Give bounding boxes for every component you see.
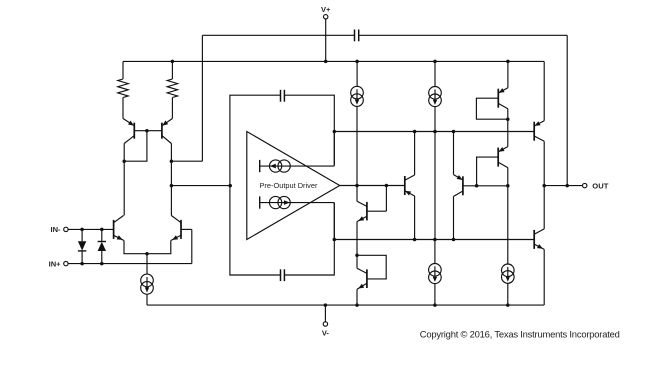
wire I2 up to box tap xyxy=(333,132,335,167)
node IN+ / D1 xyxy=(80,262,84,266)
current source I2 (in triangle, arrow left) xyxy=(260,160,335,172)
current source I4 xyxy=(351,61,364,106)
wire I7 to rail-C xyxy=(507,283,509,305)
svg-text:OUT: OUT xyxy=(592,182,608,191)
terminal IN+ xyxy=(64,261,68,265)
node Q6 emitter on rail-C xyxy=(355,303,359,307)
label V- xyxy=(322,329,330,338)
svg-text:IN+: IN+ xyxy=(49,259,62,268)
resistor R2 xyxy=(167,79,177,98)
wire rail-C (V- rail, y=305.1) xyxy=(147,304,544,306)
label IN- xyxy=(51,225,62,234)
node rail-B/CS1 xyxy=(355,60,359,64)
transistor Q12 (output NPN) xyxy=(534,186,544,306)
capacitor C3 (box bottom) xyxy=(281,269,285,281)
node OUT join xyxy=(542,184,546,188)
node mirror base tie xyxy=(145,129,149,133)
wire net-TOP (y=131.5) xyxy=(334,131,534,133)
diode D2 (cathode up) xyxy=(98,229,106,263)
wire I4 to apex node xyxy=(356,106,358,185)
node rail-B/R2 junction xyxy=(171,60,175,64)
current source I3 (in triangle, arrow right) xyxy=(260,196,335,208)
node box input xyxy=(228,184,232,188)
node Q7 collector xyxy=(413,130,417,134)
box pre-output driver frame xyxy=(230,95,334,275)
node Q8/Q9 junction xyxy=(506,117,510,121)
transistor Q1 (PNP mirror left) xyxy=(123,119,147,162)
svg-text:Pre-Output Driver: Pre-Output Driver xyxy=(260,181,318,190)
terminal IN- xyxy=(64,227,68,231)
node rail-B/V+ junction xyxy=(324,60,328,64)
node CS2 top xyxy=(433,130,437,134)
node V- stub xyxy=(324,303,328,307)
transistor Q3 (input NPN left) xyxy=(114,216,147,254)
transistor Q11 (PNP mid driver) xyxy=(454,132,508,240)
svg-text:V-: V- xyxy=(322,329,330,338)
terminal V+ xyxy=(324,15,328,62)
wire IN+ line xyxy=(68,263,192,265)
wire mirror output to rail-A drop xyxy=(171,160,202,162)
node emitter join xyxy=(145,252,149,256)
node Q1 collector junction xyxy=(122,159,126,163)
node CS1/apex xyxy=(355,184,359,188)
transistor Q2 (PNP mirror right) xyxy=(147,119,173,162)
wire rail-B left end down to R1 xyxy=(122,61,124,79)
wire tail xyxy=(146,254,148,274)
current source I7 xyxy=(502,186,515,284)
transistor Q5 (NPN diode, upper bias) xyxy=(357,186,386,256)
node rail-B/CS2 xyxy=(433,60,437,64)
node Q11 emitter tap xyxy=(452,130,456,134)
node Q2 collector junction xyxy=(170,159,174,163)
wire R2 to Q2 emitter xyxy=(171,98,173,119)
node Q9 base tap xyxy=(475,184,479,188)
current source I5 xyxy=(429,61,442,106)
capacitor C1 (on rail-A) xyxy=(355,30,359,42)
node box top-right tap xyxy=(333,130,337,134)
transistor Q8 (PNP diode upper right) xyxy=(476,61,508,119)
wire rail-A (V+ compensation rail, y=35.3) xyxy=(202,34,567,36)
svg-text:V+: V+ xyxy=(321,5,331,14)
node rail-B/Q8 xyxy=(506,60,510,64)
node Q7 emitter xyxy=(413,238,417,242)
label OUT xyxy=(592,182,608,191)
node Q9 collector junction xyxy=(506,184,510,188)
svg-text:Copyright © 2016, Texas Instru: Copyright © 2016, Texas Instruments Inco… xyxy=(420,328,620,339)
node IN- / D1 xyxy=(80,228,84,232)
terminal V- xyxy=(323,305,327,326)
node box bottom-right tap xyxy=(333,238,337,242)
wire OUT xyxy=(544,185,582,187)
wire rail-A left drop (x=202.4) xyxy=(201,35,203,161)
transistor Q9 (PNP diode lower right) xyxy=(477,119,508,186)
wire I5 down xyxy=(434,107,436,240)
node Q5/Q6 junction xyxy=(355,254,359,257)
label copyright xyxy=(420,328,620,339)
wire tap to pre-output box xyxy=(171,185,230,187)
label IN+ xyxy=(49,259,62,268)
diode D1 (cathode down) xyxy=(78,229,86,263)
capacitor C2 (box top) xyxy=(281,90,285,102)
wire R2 feed xyxy=(171,61,173,79)
label V+ xyxy=(321,5,331,14)
node compensation/OUT xyxy=(565,184,569,188)
svg-text:IN-: IN- xyxy=(51,225,62,234)
wire rail-A right drop (x=567.2) xyxy=(566,35,568,185)
transistor Q4 (input NPN right) xyxy=(147,216,192,254)
transistor Q7 (PNP, driven by apex net) xyxy=(405,132,415,240)
wire Q2 collector down to Q4 xyxy=(170,161,172,215)
terminal OUT xyxy=(583,183,587,187)
node IN- / D2 xyxy=(100,228,104,232)
node net-BOT/CS2b xyxy=(433,238,437,242)
label Pre-Output Driver xyxy=(260,181,318,190)
wire R1 to Q1 emitter xyxy=(122,98,124,119)
node Q11 collector xyxy=(452,238,456,242)
wire Q1 collector down to Q3 xyxy=(123,161,125,215)
current source I6 xyxy=(429,240,442,284)
resistor R1 xyxy=(118,79,128,98)
wire net-BOT (y=239.5) xyxy=(334,239,534,241)
current source I1 (tail) xyxy=(141,274,154,294)
node I6 on rail-C xyxy=(433,303,437,307)
transistor Q10 (output PNP) xyxy=(534,61,544,185)
transistor Q6 (NPN diode, lower bias) xyxy=(357,255,386,305)
wire I6 to rail-C xyxy=(434,284,436,306)
wire IN+ up to Q4 base xyxy=(191,229,193,263)
node IN+ / D2 xyxy=(100,262,104,266)
wire mirror base-collector tie xyxy=(124,131,147,162)
wire rail-B (V+ rail, y=61.4) xyxy=(123,60,544,62)
wire IN- line xyxy=(68,228,114,230)
wire tail to V- rail xyxy=(146,294,148,305)
op-amp U1 triangle (pre-output driver) xyxy=(247,132,340,240)
wire apex line (y=185.5) xyxy=(340,185,405,187)
node Q5 base tap xyxy=(385,184,389,188)
node I7 on rail-C xyxy=(506,303,510,307)
node second-stage tap xyxy=(170,184,174,188)
wire I3 down to box tap xyxy=(333,203,335,240)
